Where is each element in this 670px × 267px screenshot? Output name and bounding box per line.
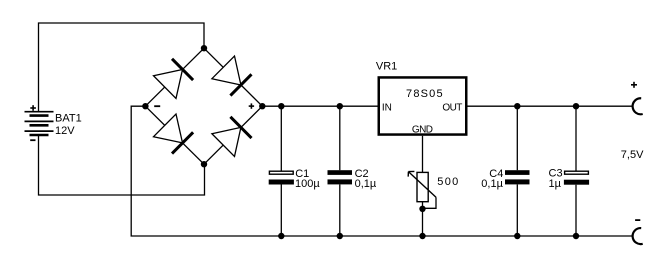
junction dot C1 top [278,103,284,109]
junction dot C2 top [337,103,343,109]
wire C3 top drop [575,106,577,170]
output plus sign [631,82,637,88]
output plus terminal [633,98,643,114]
svg-text:VR1: VR1 [376,60,397,72]
diode bridge diagonal T-R [204,48,262,106]
svg-text:IN: IN [382,103,392,114]
wire C4 top drop [516,106,518,170]
node top junction [201,45,207,51]
diode D3 (left node to bottom node) [154,114,194,154]
junction dot C3 bottom [573,233,579,239]
wire potentiometer bottom to rail [422,202,424,236]
svg-text:OUT: OUT [442,103,462,114]
wire battery plus to bridge top [39,23,205,112]
output minus terminal [633,228,643,244]
svg-text:500: 500 [437,176,459,188]
node right junction [259,103,265,109]
svg-text:78S05: 78S05 [406,88,444,100]
svg-text:0,1µ: 0,1µ [355,178,377,190]
wire VR1 OUT to plus terminal [468,105,633,107]
battery BAT1 [25,112,54,135]
capacitor C4 [505,170,530,184]
wire C1 bottom drop [280,185,282,237]
wire bridge left node to ground rail (bottom rail) [131,106,632,236]
diode bridge diagonal B-R [204,106,262,164]
diode D1 (left node to top node) [154,59,194,99]
output minus sign [635,219,640,221]
svg-text:100µ: 100µ [295,178,320,190]
junction dot C1 bottom [278,233,284,239]
wire battery minus to bridge bottom [39,135,205,195]
potentiometer arrow [408,171,436,197]
battery minus sign [30,139,35,141]
junction dot C3 top [573,103,579,109]
svg-text:7,5V: 7,5V [621,149,644,161]
wire bridge right node to VR1 IN [262,105,377,107]
wire C4 bottom drop [516,185,518,237]
svg-text:GND: GND [412,124,433,135]
potentiometer wiper junction [419,206,425,212]
svg-text:BAT1: BAT1 [55,112,82,124]
bridge plus sign (right node) [249,103,254,108]
capacitor C1 [269,171,294,184]
junction dot potentiometer bottom [419,233,425,239]
diode D2 (top node to right node) [212,56,252,96]
svg-text:1µ: 1µ [549,178,562,190]
diode bridge diagonal L-T [145,48,204,106]
junction dot C2 bottom [337,233,343,239]
wire C2 top drop [339,106,341,170]
node left junction [142,103,148,109]
capacitor C2 [328,170,353,184]
diode D4 (bottom node to right node) [212,117,252,157]
diode bridge diagonal L-B [145,106,204,164]
wire VR1 GND pin to potentiometer [422,136,424,173]
junction dot C4 bottom [514,233,520,239]
node bottom junction [201,161,207,167]
wire C2 bottom drop [339,185,341,237]
wire potentiometer wiper connection [423,197,437,208]
junction dot C4 top [514,103,520,109]
capacitor C3 [564,171,589,185]
potentiometer body [417,172,428,201]
wire C3 bottom drop [575,185,577,236]
svg-text:12V: 12V [55,125,75,137]
voltage regulator U1 box [379,77,467,134]
svg-text:0,1µ: 0,1µ [481,178,503,190]
wire C1 top drop [280,106,282,170]
bridge minus sign (left node) [154,105,160,107]
battery plus sign [30,105,36,111]
